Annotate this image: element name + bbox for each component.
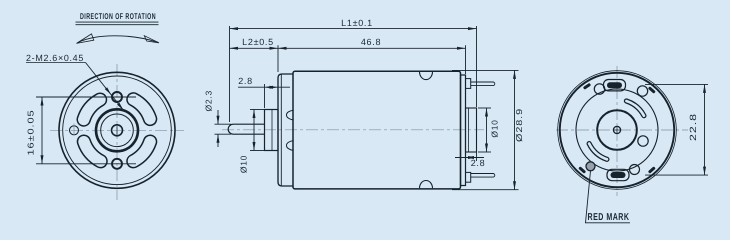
svg-text:RED MARK: RED MARK bbox=[588, 212, 630, 223]
svg-text:L2±0.5: L2±0.5 bbox=[242, 37, 274, 47]
svg-text:DIRECTION OF ROTATION: DIRECTION OF ROTATION bbox=[80, 11, 156, 21]
svg-text:16±0.05: 16±0.05 bbox=[26, 110, 36, 156]
svg-text:22.8: 22.8 bbox=[688, 113, 698, 141]
svg-text:Ø10: Ø10 bbox=[239, 155, 249, 173]
svg-text:2.8: 2.8 bbox=[471, 158, 486, 168]
svg-text:Ø10: Ø10 bbox=[490, 119, 500, 137]
svg-text:Ø28.9: Ø28.9 bbox=[514, 108, 524, 142]
svg-text:2-M2.6×0.45: 2-M2.6×0.45 bbox=[26, 53, 84, 63]
svg-text:Ø2.3: Ø2.3 bbox=[204, 90, 214, 112]
svg-text:L1±0.1: L1±0.1 bbox=[341, 18, 373, 28]
svg-text:46.8: 46.8 bbox=[361, 37, 381, 47]
svg-text:2.8: 2.8 bbox=[238, 76, 253, 86]
